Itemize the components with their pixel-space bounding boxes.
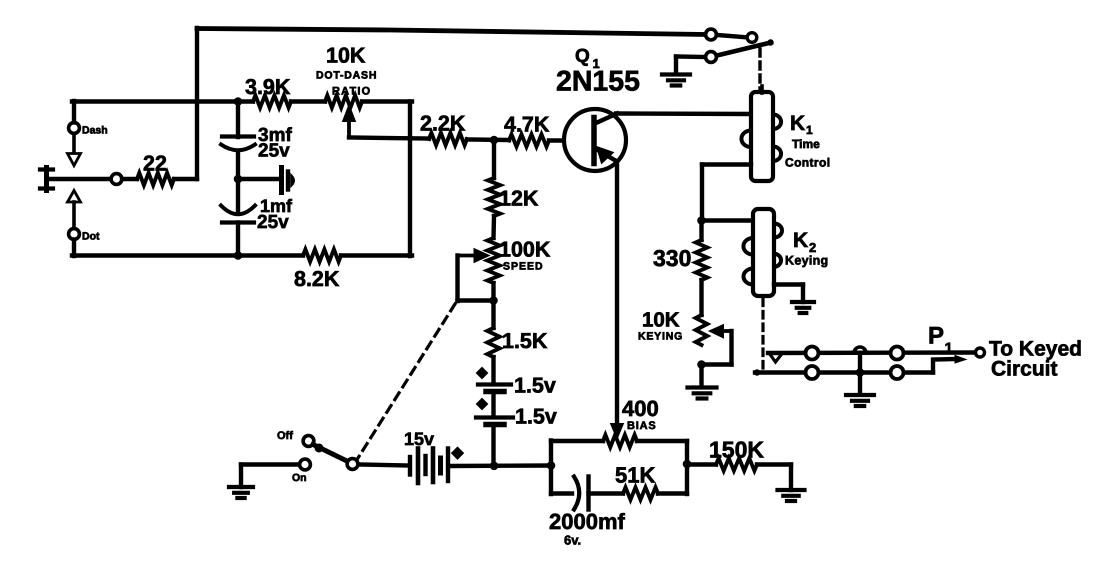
plug P1 tip ring (976, 348, 985, 357)
junction: battery / bias stack node (490, 462, 499, 471)
resistor 4.7K (509, 134, 549, 146)
svg-text:BIAS: BIAS (627, 420, 656, 432)
label K2 (793, 229, 816, 255)
ground: K2 coil return (792, 302, 814, 313)
label K1 (790, 112, 813, 137)
resistor 8.2K (303, 249, 341, 261)
svg-text:P: P (928, 323, 944, 350)
relay K2 coil loop (left lower) (744, 269, 754, 285)
mechanical link (dashed) K1 armature (758, 49, 761, 89)
transistor Q1 emitter arrow (PNP) (597, 147, 614, 164)
wire: 330 to 10K keying pot (699, 280, 703, 315)
switch S1 arm (off-on) (313, 444, 349, 463)
label Time (792, 137, 820, 151)
resistor 22 (137, 173, 174, 185)
battery cell B1 1.5v (+ mark) (476, 367, 489, 380)
junction: 3mf top (234, 97, 243, 106)
potentiometer 100K speed (element) (487, 238, 499, 283)
fixed contact of K1 switch (747, 33, 757, 43)
label 15v (404, 429, 434, 449)
wire: Q1 emitter down to bias pot (615, 161, 619, 424)
wire: keying wiper loop (702, 331, 732, 365)
mechanical link (dashed) K2 armature to keyed-line contact (761, 299, 764, 368)
wire: network right edge (408, 102, 412, 257)
contact arrow (dash, pointing down at key) (68, 134, 81, 166)
svg-text:4.7K: 4.7K (504, 113, 550, 137)
capacitor C 3mf 25v (straight plate) (222, 134, 254, 138)
label 12K (499, 187, 539, 211)
svg-text:12K: 12K (499, 187, 539, 211)
junction: K2 coil node (697, 216, 706, 225)
label 25v (1mf) (257, 212, 289, 233)
wire: K1 lower terminal to 330 node (702, 165, 751, 222)
relay K1 coil loop (right upper) (773, 115, 781, 130)
label 8.2K (294, 267, 340, 291)
label 4.7K (504, 113, 550, 137)
wire: 51K to box right edge (658, 491, 687, 495)
svg-text:RATIO: RATIO (332, 86, 371, 98)
resistor 3.9K (253, 95, 291, 107)
wire: top bus from keyer input to K1 switch (197, 29, 705, 35)
resistor 1.5K (487, 328, 499, 357)
wire: cell B1 to cell B2 (491, 392, 495, 416)
label 1.5v (B1) (514, 374, 556, 398)
potentiometer 10K dot-dash ratio (element) (325, 95, 362, 107)
resistor 51K (623, 487, 658, 499)
wire: ground to armature terminal (676, 54, 705, 59)
svg-text:22: 22 (143, 152, 167, 176)
label P1 (928, 323, 953, 358)
svg-text:2.2K: 2.2K (420, 112, 466, 136)
terminal ring P1 lower-right (891, 366, 904, 379)
label Circuit (991, 358, 1058, 381)
wire: bias box right edge (685, 441, 689, 464)
svg-text:1: 1 (945, 340, 953, 357)
battery B3 + mark (451, 446, 464, 459)
label Dash (82, 125, 108, 137)
wire: resistor 22 to riser (174, 177, 197, 181)
label RATIO (332, 86, 371, 98)
terminal ring at key output (111, 174, 122, 185)
wire: bias box right edge lower (685, 464, 689, 494)
wire: 2.2K to node (467, 137, 509, 142)
label 2000mf (549, 509, 626, 534)
label KEYING (638, 331, 683, 343)
resistor 12K (488, 178, 500, 216)
capacitor C 1mf 25v (curved plate) (221, 206, 255, 215)
resistor 330 (696, 240, 708, 280)
label Q1 (575, 46, 600, 71)
label 22 (143, 152, 167, 176)
wire: node to 12K (492, 140, 496, 178)
svg-text:On: On (292, 472, 307, 484)
transistor Q1 collector lead (596, 114, 617, 124)
wire: P1 upper conductor (768, 350, 975, 355)
battery B3 15v plates (410, 449, 448, 484)
svg-text:15v: 15v (404, 429, 434, 449)
label 51K (615, 463, 655, 488)
transistor Q1 base bar (591, 118, 597, 164)
wire: stub to key-frame plug (238, 177, 279, 181)
svg-text:Dot: Dot (82, 231, 100, 243)
label DOT-DASH (316, 70, 377, 82)
junction: 1mf bottom (234, 251, 243, 260)
wire: 3mf to mid junction (236, 151, 240, 179)
label 25v (3mf) (258, 141, 290, 162)
label To Keyed (989, 338, 1082, 361)
wire: top line to capacitor 3mf (236, 102, 240, 138)
relay K2 coil loop (right lower) (774, 254, 781, 268)
node Dot: contact ring (69, 229, 80, 240)
wire: upper conductor to ground tap (858, 353, 862, 394)
wire: bias box left edge (549, 441, 553, 495)
label Off (277, 430, 293, 442)
node Off: contact ring (303, 436, 314, 447)
wire: bias box top-right (637, 439, 687, 443)
label 1.5v (B2) (515, 405, 557, 429)
svg-text:2N155: 2N155 (556, 66, 640, 98)
potentiometer 400 bias (element) (603, 435, 637, 447)
junction: base divider node (490, 136, 499, 145)
capacitor C 1mf 25v (straight plate) (222, 220, 254, 224)
svg-text:25v: 25v (258, 141, 290, 162)
relay K1 coil loop (right lower) (773, 147, 781, 162)
key-frame plug symbol (282, 168, 295, 193)
ground: keyed line (846, 395, 874, 406)
wire: bias box top-left (551, 439, 603, 443)
svg-text:1: 1 (806, 123, 813, 137)
contact arrow (dot, pointing up at key) (68, 191, 81, 230)
wire: right node to 150K (687, 462, 716, 466)
potentiometer 400 bias wiper arrow (611, 424, 624, 440)
relay K1 coil loop (left) (741, 131, 751, 148)
ground: 150K return (778, 490, 805, 501)
wire: network bottom line (right segment) (341, 253, 412, 257)
svg-text:1.5K: 1.5K (502, 329, 548, 353)
capacitor C 2000mf (straight plate) (586, 477, 590, 510)
svg-text:2000mf: 2000mf (549, 509, 626, 534)
wire: node to 330 (699, 221, 703, 241)
svg-text:Circuit: Circuit (991, 358, 1058, 381)
wire: terminal to resistor 22 (122, 177, 137, 181)
label 10K (326, 44, 366, 68)
label 2N155 (556, 66, 640, 98)
relay K1 coil core (751, 92, 773, 181)
svg-text:Dash: Dash (82, 125, 108, 137)
svg-text:8.2K: 8.2K (294, 267, 340, 291)
label 1mf (260, 196, 293, 216)
node On: contact ring (300, 459, 311, 470)
node: keyed-line terminal ring (top bus) (706, 29, 717, 40)
switch armature of relay K1 (717, 39, 774, 55)
transistor Q1 2N155 (body circle) (564, 109, 626, 171)
battery cell B1 1.5v plates (478, 385, 511, 392)
wire: vertical riser from 22-ohm resistor to top bus (195, 28, 199, 179)
wire: key lever to terminal (47, 177, 112, 181)
wire: bias box bottom-left to capacitor (551, 491, 572, 495)
relay K2 coil loop (right upper) (774, 224, 782, 238)
svg-text:1.5v: 1.5v (515, 405, 557, 429)
svg-text:Off: Off (277, 430, 293, 442)
svg-text:KEYING: KEYING (638, 331, 683, 343)
svg-text:K: K (793, 229, 808, 252)
mechanical link (dashed) speed pot to on-off switch (358, 304, 455, 458)
junction: bias box left node (547, 461, 556, 470)
wire: network top line (right segment) (362, 99, 412, 103)
wire: 12K to 100K speed pot (491, 216, 496, 238)
junction: capacitor midpoint / key common (234, 175, 243, 184)
plug contact arrow (955, 356, 966, 364)
svg-text:25v: 25v (257, 212, 289, 233)
wire: cell B2 down to supply rail (491, 425, 495, 467)
node Dash: contact ring (69, 123, 80, 134)
wire: mid junction to capacitor 1mf (236, 179, 240, 212)
wire: lower conductor step to plug (933, 359, 957, 373)
svg-text:10K: 10K (642, 309, 680, 332)
svg-text:100K: 100K (499, 238, 551, 262)
label SPEED (503, 261, 544, 273)
relay K1 top stub (760, 86, 764, 93)
wire: network top line (middle segment) (291, 99, 325, 103)
wire: ground to On contact (241, 462, 300, 466)
node: armature terminal ring (706, 52, 717, 63)
resistor 150K (716, 458, 757, 470)
svg-text:SPEED: SPEED (503, 261, 544, 273)
label On (292, 472, 307, 484)
svg-text:DOT-DASH: DOT-DASH (316, 70, 377, 82)
svg-text:3.9K: 3.9K (245, 75, 291, 99)
label Keying (785, 254, 828, 268)
label BIAS (627, 420, 656, 432)
terminal ring P1 upper-left (806, 347, 819, 360)
wire: switch to battery 15v (359, 465, 410, 466)
wire: network bottom line (left segment) (72, 253, 303, 257)
svg-text:K: K (790, 112, 805, 135)
junction: 100K bottom node (489, 296, 498, 305)
capacitor C 3mf 25v (curved plate) (221, 145, 255, 151)
potentiometer 10K wiper arm (343, 105, 356, 138)
wire: 1.5K to cell B1 (491, 357, 495, 382)
wire: node to 1.5K (491, 301, 495, 328)
junction: bias box right node (683, 460, 692, 469)
wire: Dot contact down to network bottom line (72, 240, 76, 257)
wire: 1mf to bottom line (236, 223, 240, 257)
junction: lower conductor ground tap (856, 368, 865, 377)
ground: keying pot return (688, 365, 717, 399)
label 6v. (564, 533, 581, 548)
potentiometer 100K wiper arm (458, 249, 490, 263)
resistor 2.2K (429, 133, 467, 145)
wire: Dash contact up to network top line (72, 101, 76, 123)
battery cell B2 1.5v (+ mark) (476, 398, 489, 411)
label 3.9K (245, 75, 291, 99)
svg-text:Time: Time (792, 137, 820, 151)
wire: terminal to fixed contact (717, 35, 749, 38)
relay K2 coil core (753, 209, 774, 296)
label 1.5K (502, 329, 548, 353)
wire: 10K wiper to resistor 2.2K (349, 138, 429, 139)
terminal ring P1 lower-left (806, 366, 819, 379)
svg-text:400: 400 (622, 396, 659, 421)
battery cell B2 1.5v plates (476, 418, 513, 425)
wire: P1 lower conductor (754, 369, 933, 375)
terminal ring P1 upper-right (891, 347, 904, 360)
svg-text:Control: Control (785, 156, 830, 170)
label Control (785, 156, 830, 170)
svg-text:330: 330 (653, 245, 691, 271)
svg-text:10K: 10K (326, 44, 366, 68)
wire: 100K wiper loop to bottom (458, 256, 493, 302)
label 400 (622, 396, 659, 421)
transistor Q1 emitter lead (596, 149, 617, 162)
wire: 4.7K to Q1 base (549, 138, 593, 142)
junction: keying pot bottom (697, 360, 706, 369)
wire: network top line (left segment) (72, 99, 253, 103)
svg-text:Keying: Keying (785, 254, 828, 268)
ground: K1 switch return (662, 57, 690, 86)
label 330 (653, 245, 691, 271)
ground: on-off switch arm (229, 465, 253, 499)
keyed-line moving contact arrow (769, 353, 783, 362)
wire: Q1 collector to relay K1 (616, 111, 751, 116)
label 3mf (258, 125, 292, 146)
label 100K (499, 238, 551, 262)
key lever (hand key input) (40, 168, 53, 191)
wire: battery 15v to bias network (450, 463, 552, 468)
wire: 150K to ground drop (757, 465, 791, 491)
svg-text:1.5v: 1.5v (514, 374, 556, 398)
wire: capacitor to 51K (589, 491, 624, 495)
label 10K (keying) (642, 309, 680, 332)
wire: K2 lower terminal to ground (774, 285, 803, 303)
label 2.2K (420, 112, 466, 136)
label Dot (82, 231, 100, 243)
potentiometer 10K keying (element) (696, 315, 708, 345)
capacitor C 2000mf (curved plate) (574, 477, 579, 510)
wire: 100K element bottom (491, 283, 495, 301)
svg-text:6v.: 6v. (564, 533, 581, 548)
potentiometer 10K keying wiper arm (709, 325, 732, 339)
svg-text:51K: 51K (615, 463, 655, 488)
svg-text:150K: 150K (709, 437, 764, 463)
wire: node to relay K2 (702, 218, 754, 222)
label 150K (709, 437, 764, 463)
contact hump on upper conductor (854, 347, 866, 353)
svg-text:Q: Q (575, 46, 590, 67)
switch S1 pivot ring (347, 459, 358, 470)
relay K2 coil loop (left upper) (743, 238, 753, 255)
